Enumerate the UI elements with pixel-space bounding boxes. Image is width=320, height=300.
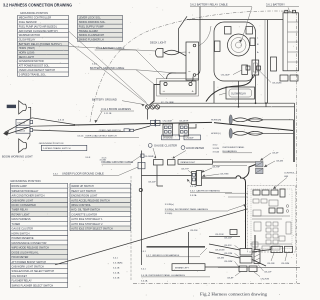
over load switch wire <box>75 131 124 133</box>
ground wire to bolt <box>150 85 161 106</box>
svg-text:FRAME GROUND CABLE: FRAME GROUND CABLE <box>102 160 134 164</box>
cable curve to relay <box>199 26 212 46</box>
svg-text:TRAVEL ALARM: TRAVEL ALARM <box>79 29 98 33</box>
glow relay <box>226 87 255 99</box>
controller outline <box>248 186 296 253</box>
fusible link 2 <box>155 105 159 109</box>
battery relay housing <box>214 22 256 81</box>
svg-text:CN-TTF: CN-TTF <box>181 169 190 171</box>
bell lower <box>19 139 27 153</box>
svg-text:3.4.1A: 3.4.1A <box>113 271 120 274</box>
svg-text:3.3.1B: 3.3.1B <box>113 277 120 279</box>
horn high body <box>233 118 248 122</box>
svg-text:AUTO ACCEL RELEASE SWITCH: AUTO ACCEL RELEASE SWITCH <box>71 199 110 202</box>
svg-text:2P46H-M#: 2P46H-M# <box>163 138 174 140</box>
svg-text:POWER RESERVE: POWER RESERVE <box>12 237 34 240</box>
deck light lamp <box>155 49 163 58</box>
svg-text:MECHATRO CONTROLLER: MECHATRO CONTROLLER <box>19 16 52 20</box>
svg-text:INSTRUMENT PANEL: INSTRUMENT PANEL <box>223 146 246 149</box>
svg-text:FUEL SENSOR: FUEL SENSOR <box>19 20 37 24</box>
svg-text:GLOW RELAY: GLOW RELAY <box>19 37 36 41</box>
boom harness band <box>32 118 75 125</box>
svg-text:CN-251F: CN-251F <box>215 234 225 236</box>
svg-text:−: − <box>163 89 166 94</box>
thick under floor harness line <box>147 246 206 248</box>
svg-text:TUNER: TUNER <box>12 223 21 226</box>
svg-text:3.5.1B: 3.5.1B <box>190 186 197 188</box>
connector rects <box>192 172 197 185</box>
svg-text:CN-18M: CN-18M <box>224 261 232 263</box>
svg-text:SWING FLASHER SELECT SWITCH: SWING FLASHER SELECT SWITCH <box>12 284 54 287</box>
leader battery ground <box>122 101 145 105</box>
battery vertical <box>186 42 199 80</box>
cab dashed outline vertical <box>130 176 132 281</box>
svg-text:AUTO IDLE STOP SELECT SWITCH: AUTO IDLE STOP SELECT SWITCH <box>71 228 113 231</box>
label CN234F <box>184 135 201 140</box>
cluster stacked pair <box>240 249 252 256</box>
svg-text:GAUGE CLUSTER: GAUGE CLUSTER <box>154 144 177 148</box>
machine body dash-dot outline <box>90 11 296 122</box>
svg-text:Fig.2 Harness connection draw: Fig.2 Harness connection drawing <box>200 291 268 296</box>
svg-text:3.9.2A: 3.9.2A <box>213 151 220 154</box>
svg-text:INPANE LEFT: INPANE LEFT <box>175 267 190 270</box>
svg-text:BOOM WORKING LIGHT: BOOM WORKING LIGHT <box>2 154 33 158</box>
svg-text:SINGLE/CONFLUX SELECT SWITCH: SINGLE/CONFLUX SELECT SWITCH <box>12 270 55 273</box>
svg-text:CN-251M: CN-251M <box>215 250 225 252</box>
main wire to controller <box>202 176 246 249</box>
svg-text:ATT POWER BOOST SWITCH: ATT POWER BOOST SWITCH <box>12 261 47 264</box>
svg-text:CN-24F: CN-24F <box>148 182 156 184</box>
partition wall <box>213 81 215 103</box>
svg-text:TIMER RELAY: TIMER RELAY <box>12 209 29 212</box>
battery ground bolt <box>145 105 149 109</box>
svg-text:CN-162M: CN-162M <box>272 83 282 85</box>
svg-text:LER: LER <box>284 176 289 178</box>
leader arrow <box>187 179 192 185</box>
svg-text:HOUR METER: HOUR METER <box>186 146 204 150</box>
svg-text:HORN (L): HORN (L) <box>211 133 221 135</box>
horn wire down right edge <box>293 120 295 162</box>
leader battery ground cable <box>136 70 176 73</box>
svg-text:ATT POWER BOOST SOL.: ATT POWER BOOST SOL. <box>19 64 50 68</box>
svg-text:DC/DC CONVERTER: DC/DC CONVERTER <box>12 204 36 207</box>
gray line under cluster <box>218 266 300 268</box>
relay box 1 <box>153 160 163 165</box>
wires to connectors <box>142 175 192 177</box>
branch to connector stack <box>244 165 256 179</box>
svg-text:3.6.2 BATTERY RELAY CABLE: 3.6.2 BATTERY RELAY CABLE <box>190 2 228 6</box>
svg-text:HORN SWITCH: HORN SWITCH <box>12 232 30 235</box>
svg-text:AUTO IDLE STOP RELAY 1: AUTO IDLE STOP RELAY 1 <box>71 218 103 221</box>
svg-text:MAINTENANCE CONNECTOR: MAINTENANCE CONNECTOR <box>12 242 47 245</box>
svg-text:CN234F: CN234F <box>186 138 195 140</box>
long diagonal wire <box>55 209 248 265</box>
svg-text:HOUR METER: HOUR METER <box>12 256 29 259</box>
svg-text:GROUNDING POSITION: GROUNDING POSITION <box>20 11 48 15</box>
relay coil outer <box>228 34 250 56</box>
leader to relay <box>242 7 253 41</box>
horn low bracket <box>229 128 232 138</box>
label gauge cluster <box>148 144 152 148</box>
svg-text:CN-25F: CN-25F <box>190 230 198 232</box>
svg-text:MAIN HARNESS: MAIN HARNESS <box>12 218 31 221</box>
svg-text:CN-T8M: CN-T8M <box>220 173 228 175</box>
deck light cable <box>179 16 187 56</box>
svg-text:FUEL SUPPLY PUMP: FUEL SUPPLY PUMP <box>79 24 104 28</box>
dark label plate <box>7 105 16 108</box>
svg-text:CIGARETTE LIGHTER: CIGARETTE LIGHTER <box>71 213 97 216</box>
svg-text:2-SPEED TRAVEL SWITCH: 2-SPEED TRAVEL SWITCH <box>43 147 71 150</box>
svg-text:RH HARNESS: RH HARNESS <box>223 150 238 153</box>
terminal top-right <box>246 27 253 35</box>
battery horizontal <box>157 79 199 97</box>
svg-text:HORN (HIGH): HORN (HIGH) <box>19 46 35 50</box>
svg-text:CN-T8F: CN-T8F <box>212 166 220 168</box>
wire from connector pair <box>189 124 197 128</box>
svg-text:ENGINE ROOM LIGHT: ENGINE ROOM LIGHT <box>71 195 98 198</box>
leader to harness band <box>96 112 102 122</box>
svg-text:3.5.5: 3.5.5 <box>102 158 108 160</box>
right edge wire <box>294 103 296 162</box>
svg-text:CN-18F: CN-18F <box>267 263 275 265</box>
svg-text:CONTROL-: CONTROL- <box>284 172 296 174</box>
svg-text:WING CONTROL: WING CONTROL <box>71 204 91 207</box>
svg-text:WIPER MOTOR RELAY: WIPER MOTOR RELAY <box>12 190 39 193</box>
jumper wires <box>191 77 193 82</box>
battery 3.6.1 <box>283 13 299 71</box>
svg-text:HYD. OIL TEMP SWITCH: HYD. OIL TEMP SWITCH <box>71 209 100 212</box>
power bus lines <box>212 102 295 104</box>
terminal right <box>250 38 255 46</box>
svg-text:CN-7DM: CN-7DM <box>261 278 270 280</box>
svg-text:3.6.8: 3.6.8 <box>85 157 91 159</box>
svg-text:WARM UP SWITCH: WARM UP SWITCH <box>71 185 94 188</box>
svg-text:CN-3M: CN-3M <box>217 257 224 259</box>
fusible link 1 <box>150 105 154 109</box>
svg-text:CAB WORK LIGHT SWITCH: CAB WORK LIGHT SWITCH <box>12 265 44 268</box>
svg-text:3.11.1B: 3.11.1B <box>104 113 112 115</box>
svg-text:HORN (H): HORN (H) <box>211 120 221 122</box>
label hour meter <box>181 146 185 150</box>
wire db2 <box>33 130 75 132</box>
svg-text:FUEL PUMP (AUTO AIR BLEED ): FUEL PUMP (AUTO AIR BLEED ) <box>19 24 58 28</box>
svg-text:CN-4F: CN-4F <box>272 152 279 154</box>
right pair <box>271 246 283 252</box>
table A col2 <box>78 15 123 19</box>
svg-text:−: − <box>188 69 191 74</box>
svg-text:ROOM LAMP: ROOM LAMP <box>12 185 28 188</box>
svg-text:HEAVY LIFT SWITCH: HEAVY LIFT SWITCH <box>71 190 96 193</box>
svg-text:3.5.1: 3.5.1 <box>141 251 147 253</box>
relay cable swoop <box>206 75 253 102</box>
svg-text:SWING FLASHER LH: SWING FLASHER LH <box>79 37 104 41</box>
travel alarm bell <box>19 101 27 114</box>
svg-text:LEVER LOCK SOL.: LEVER LOCK SOL. <box>79 16 102 20</box>
svg-text:AUTO IDLE STOP RELAY 2: AUTO IDLE STOP RELAY 2 <box>71 223 103 226</box>
cluster small pair <box>239 266 247 272</box>
svg-text:HORN (LOW): HORN (LOW) <box>19 51 35 55</box>
svg-text:CIG SOCKET: CIG SOCKET <box>12 275 28 278</box>
relay blocks <box>253 190 260 195</box>
svg-text:CN-11F: CN-11F <box>264 272 272 274</box>
table B col2 <box>70 198 131 203</box>
svg-text:3.11.1 BOOM HARNESS: 3.11.1 BOOM HARNESS <box>101 107 131 111</box>
svg-text:3.5.2 CAB FRONT HARNESS: 3.5.2 CAB FRONT HARNESS <box>190 190 220 193</box>
svg-text:CN-4M: CN-4M <box>276 160 283 162</box>
svg-text:UNDER FLOOR GROUND CABLE: UNDER FLOOR GROUND CABLE <box>62 171 104 175</box>
relay box 2 <box>168 160 176 165</box>
svg-text:3.4.1: 3.4.1 <box>141 268 147 270</box>
svg-text:2-SPEED TRAVEL SOL.: 2-SPEED TRAVEL SOL. <box>19 72 47 76</box>
svg-text:SWING FLASHER RH: SWING FLASHER RH <box>79 33 105 37</box>
svg-text:AIR CONDITIONER SWITCH: AIR CONDITIONER SWITCH <box>12 195 45 198</box>
svg-text:CN-116M: CN-116M <box>163 120 172 122</box>
inpane right box <box>178 160 213 165</box>
inpane left box <box>172 264 205 271</box>
riser connector box <box>138 162 145 169</box>
horn high bracket <box>229 115 232 125</box>
svg-text:3.6.1 BATTERY: 3.6.1 BATTERY <box>266 2 285 6</box>
deck light lens <box>164 50 179 55</box>
svg-text:GAUGE CLUSTER: GAUGE CLUSTER <box>12 228 34 231</box>
bottom dash-dot line <box>133 283 300 285</box>
db-104 connector 2 <box>16 127 30 133</box>
svg-text:3.4.1B INSTRUMENT PANEL LH HA: 3.4.1B INSTRUMENT PANEL LH HARNESS <box>141 274 186 277</box>
svg-text:CN-8F: CN-8F <box>227 278 234 280</box>
svg-text:DIODE (GLOW RELAY): DIODE (GLOW RELAY) <box>12 251 39 254</box>
svg-text:FLASHER RELAY: FLASHER RELAY <box>12 280 33 283</box>
svg-text:3.4.1: 3.4.1 <box>113 257 119 259</box>
cab riser wire <box>141 151 143 266</box>
table B col1 <box>10 198 67 203</box>
svg-text:3.6.16 OVER LOAD DETECT SWIT: 3.6.16 OVER LOAD DETECT SWITCH <box>77 135 117 138</box>
fusible link holder <box>252 60 259 75</box>
svg-text:OVER LOAD SWITCH: OVER LOAD SWITCH <box>99 129 121 132</box>
svg-text:WASHER MOTOR: WASHER MOTOR <box>19 33 40 37</box>
leader diagonal deck light <box>69 47 157 52</box>
svg-text:3.6.15: 3.6.15 <box>58 119 65 121</box>
svg-text:CN-1EMF: CN-1EMF <box>144 156 154 158</box>
leader diagonal to ground bolt <box>69 31 147 103</box>
svg-text:DB-104: DB-104 <box>18 123 26 125</box>
cluster wires <box>254 235 256 250</box>
svg-text:BATTERY RELAY (POWER SUPPLY): BATTERY RELAY (POWER SUPPLY) <box>19 42 62 46</box>
horn low body <box>233 131 248 135</box>
2-speed travel switch box <box>41 145 87 150</box>
svg-text:GOVERNOR MOTOR: GOVERNOR MOTOR <box>19 59 44 63</box>
terminal top-left <box>225 27 232 35</box>
svg-text:DECK LIGHT: DECK LIGHT <box>19 55 35 59</box>
horn high wire <box>263 119 294 121</box>
horn low wire <box>263 132 294 134</box>
svg-text:OVER LOAD DETECT SWITCH: OVER LOAD DETECT SWITCH <box>19 68 56 72</box>
relay connector CN-162F <box>242 65 248 75</box>
table A col1 <box>18 42 69 46</box>
horn high bell <box>248 118 264 122</box>
svg-text:ROTARY LIGHT: ROTARY LIGHT <box>12 213 31 216</box>
svg-text:3.5.2A: 3.5.2A <box>190 194 197 197</box>
svg-text:3.2 HARNESS CONNECTION DRAWIN: 3.2 HARNESS CONNECTION DRAWING <box>3 2 72 8</box>
fuse wires to bus <box>160 106 212 108</box>
db-104 connector 1 <box>16 119 30 125</box>
svg-text:3.5.2: 3.5.2 <box>53 173 59 175</box>
svg-text:AIR FILTER CLOGGING SWITCH: AIR FILTER CLOGGING SWITCH <box>19 29 58 33</box>
svg-text:CN-162F: CN-162F <box>221 75 231 77</box>
svg-text:3.9.2B: 3.9.2B <box>213 148 220 150</box>
leader battery cable <box>136 50 165 79</box>
svg-text:CN-18M: CN-18M <box>281 263 289 265</box>
svg-text:SWING PARKING SOL.: SWING PARKING SOL. <box>79 20 106 24</box>
svg-text:3.3.1B(R): 3.3.1B(R) <box>113 262 123 264</box>
svg-text:3.3.2B(b) INSTRUMENT PANEL HA: 3.3.2B(b) INSTRUMENT PANEL HARNESS <box>165 208 209 211</box>
svg-text:BATTERY GROUND: BATTERY GROUND <box>92 97 117 101</box>
svg-text:CAB WORK LIGHT: CAB WORK LIGHT <box>12 199 34 202</box>
svg-text:3.9.2: 3.9.2 <box>213 145 219 147</box>
svg-text:3.3.2B(a): 3.3.2B(a) <box>165 204 174 206</box>
svg-text:CN-1ETF: CN-1ETF <box>179 120 189 122</box>
wire to right <box>213 161 256 163</box>
battery relay cable wire <box>199 7 201 71</box>
labels CN-251 <box>230 230 237 235</box>
svg-text:GROUNDING POSITION: GROUNDING POSITION <box>39 143 64 145</box>
label 2P46H-M <box>162 135 180 140</box>
hatched connector <box>254 250 260 264</box>
svg-text:3.5.7 UNDER FLOOR HARNESS: 3.5.7 UNDER FLOOR HARNESS <box>146 254 180 257</box>
svg-text:WIPE MODE RELEASE SWITCH: WIPE MODE RELEASE SWITCH <box>12 247 50 250</box>
svg-text:DECK LIGHT: DECK LIGHT <box>150 41 166 45</box>
svg-text:GROUNDING POSITION: GROUNDING POSITION <box>10 179 40 183</box>
terminal left <box>215 41 221 52</box>
engine deck top line <box>187 19 283 21</box>
relay coil inner <box>231 38 246 53</box>
wires inpane left to cluster <box>209 236 240 238</box>
frame edge double vertical <box>267 20 269 103</box>
svg-text:3.4.1B: 3.4.1B <box>113 267 120 269</box>
svg-text:3.4.1A: 3.4.1A <box>141 279 148 282</box>
svg-text:DB-104: DB-104 <box>18 131 26 133</box>
svg-text:INPANE RIGHT: INPANE RIGHT <box>181 161 196 164</box>
connector stack <box>256 162 264 167</box>
svg-text:CN-1DF: CN-1DF <box>224 238 233 240</box>
horn low bell <box>248 131 264 135</box>
svg-text:3.3.6(b): 3.3.6(b) <box>165 213 173 215</box>
right page border dash-dot <box>296 12 298 283</box>
